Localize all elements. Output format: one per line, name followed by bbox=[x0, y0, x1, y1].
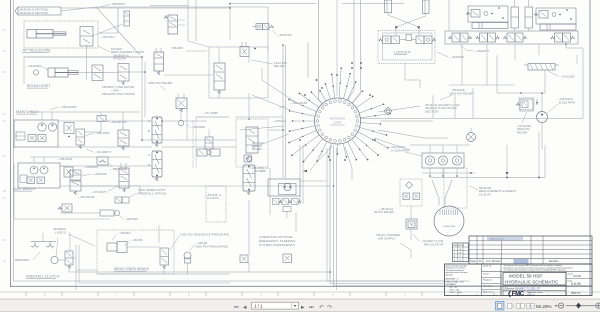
svg-text:—47UJ0I85: —47UJ0I85 bbox=[202, 111, 218, 115]
svg-text:56.29%: 56.29% bbox=[536, 304, 552, 309]
main winch counterbalance valve bbox=[64, 123, 74, 134]
aux winch motor 1 bbox=[30, 166, 38, 174]
svg-text:REGULATOR: REGULATOR bbox=[424, 242, 444, 246]
svg-text:Revision: Revision bbox=[549, 260, 559, 263]
svg-text:FRACTIONAL : 1/16: FRACTIONAL : 1/16 bbox=[446, 280, 465, 283]
center tall valve lower bbox=[243, 165, 255, 191]
svg-text:89C-71-201-27: 89C-71-201-27 bbox=[520, 287, 541, 291]
svg-text:—3UJ0182: —3UJ0182 bbox=[559, 75, 575, 79]
frame left inner border bbox=[13, 0, 15, 281]
big region rect top bbox=[96, 6, 268, 8]
pump lower box bbox=[283, 207, 291, 212]
ray continuation wires right bbox=[378, 106, 420, 112]
boom hoist holding valve bbox=[118, 64, 129, 82]
model title text bbox=[503, 273, 566, 286]
pump comb band bbox=[273, 199, 280, 205]
pilot valve 65J0795 bbox=[256, 24, 263, 30]
dashed region 47UJ0185 bbox=[196, 116, 229, 118]
zoom dropdown arrow bbox=[555, 305, 558, 307]
paper bottom edge bbox=[0, 291, 600, 293]
rotating joint radial lines bbox=[329, 143, 332, 157]
svg-text:⏭: ⏭ bbox=[309, 305, 314, 311]
svg-text:—46U0I06: —46U0I06 bbox=[124, 217, 138, 221]
vertical cylinder pair bbox=[511, 7, 519, 28]
svg-text:—52U00796: —52U00796 bbox=[109, 120, 127, 124]
lockout pilot center bbox=[406, 35, 412, 41]
part flag 58U0192 bbox=[15, 7, 18, 15]
aux winch motor 2 bbox=[40, 166, 48, 174]
svg-text:CRANKCASE: CRANKCASE bbox=[443, 225, 456, 228]
lockout valve left bbox=[383, 36, 392, 44]
right wires horiz bbox=[360, 118, 536, 120]
svg-text:58U0195 (3 SECTION): 58U0195 (3 SECTION) bbox=[20, 11, 49, 15]
page-mode icon 3 bbox=[517, 303, 520, 308]
zoom slider track bbox=[566, 305, 596, 307]
svg-text:A: A bbox=[4, 259, 6, 263]
svg-text:9-6-90: 9-6-90 bbox=[571, 282, 581, 286]
freefall leader wires bbox=[56, 238, 58, 256]
top right row wires bbox=[461, 44, 463, 85]
svg-text:DECIMALS:: DECIMALS: bbox=[446, 283, 457, 286]
relief valve spool bbox=[214, 63, 225, 90]
swing motor circle 1 bbox=[425, 156, 434, 165]
tip telescope cylinder bbox=[27, 30, 53, 39]
wire flag to bank bbox=[61, 7, 96, 11]
svg-text:—94J0095: —94J0095 bbox=[190, 125, 205, 129]
svg-text:C.O. Number: C.O. Number bbox=[486, 260, 501, 263]
revisions table highlight cell bbox=[487, 237, 523, 241]
outrigger cylinder left bbox=[385, 0, 392, 13]
strainer funnel bbox=[432, 180, 439, 205]
wire telescope to right bbox=[98, 8, 118, 33]
svg-text:ANGULAR : 1°: ANGULAR : 1° bbox=[446, 278, 459, 281]
revision mini-table bbox=[453, 243, 469, 262]
aux wires bbox=[17, 164, 19, 188]
feed valve top left bbox=[168, 15, 178, 34]
main winch motor 1 bbox=[38, 123, 46, 131]
revisions table column lines bbox=[476, 236, 478, 264]
svg-text:—46J05A: —46J05A bbox=[117, 231, 132, 235]
svg-text:Division: Division bbox=[527, 294, 535, 296]
leader cams bbox=[98, 46, 110, 52]
resistor box 58D0016a bbox=[97, 157, 108, 165]
joint funnel wires bbox=[319, 99, 325, 106]
svg-text:—57UJ075: —57UJ075 bbox=[91, 190, 107, 194]
upper center valve 58UJ006 bbox=[240, 47, 249, 57]
clutch lever bbox=[100, 210, 114, 216]
ray continuation wires down bbox=[310, 148, 330, 170]
right pilot valve block bbox=[520, 99, 533, 110]
zoom slider knob bbox=[576, 303, 581, 309]
tip telescope dashed box bbox=[24, 21, 98, 48]
aux control valve stack bbox=[70, 170, 81, 180]
boom hoist check valve bbox=[33, 70, 38, 75]
svg-text:—46J4I6: —46J4I6 bbox=[130, 238, 143, 242]
revisions table header row bbox=[469, 258, 592, 260]
svg-text:JOINT: JOINT bbox=[333, 121, 342, 125]
two speed selector bbox=[115, 197, 122, 203]
wire corridor top bbox=[187, 0, 189, 41]
relief valve 2193 psi block bbox=[209, 47, 268, 98]
relief diamond right bbox=[384, 107, 392, 115]
svg-text:—47K012: —47K012 bbox=[272, 119, 286, 123]
center small valve below bbox=[244, 155, 252, 162]
park brake wires bbox=[127, 246, 160, 248]
title block revisions table outer bbox=[469, 236, 592, 264]
svg-text:Approved: Approved bbox=[483, 291, 493, 294]
center long verticals bbox=[330, 145, 444, 284]
svg-text:AIR SUPPLY: AIR SUPPLY bbox=[378, 236, 396, 240]
svg-text:58D000I6s: 58D000I6s bbox=[15, 258, 30, 262]
svg-text:.XXXX : .0005: .XXXX : .0005 bbox=[449, 292, 462, 294]
used-on cell bbox=[482, 271, 593, 273]
aux winch counterbalance bbox=[64, 167, 73, 177]
air valve 1 bbox=[403, 193, 410, 200]
svg-text:RELIEF: RELIEF bbox=[274, 64, 285, 68]
svg-text:AC48: AC48 bbox=[573, 274, 581, 278]
freefall spring symbol 2 bbox=[46, 245, 54, 248]
boom hoist valve 2 bbox=[92, 65, 103, 81]
right pilot arrow bbox=[536, 99, 538, 105]
svg-text:—46J0105: —46J0105 bbox=[92, 172, 107, 176]
freefall spring symbol 1 bbox=[31, 245, 39, 248]
aux winch brake box 1 bbox=[27, 177, 35, 184]
air wires bbox=[410, 206, 412, 219]
freefall valve bbox=[65, 251, 73, 265]
bottom long bus bbox=[150, 271, 330, 273]
swing brake circle bbox=[434, 206, 464, 236]
main valve bank section B bbox=[152, 151, 162, 177]
frame bottom inner line bbox=[14, 280, 470, 282]
junction dots interconnect bbox=[141, 56, 143, 58]
lower x-box right bbox=[283, 254, 292, 263]
svg-text:SECTION: SECTION bbox=[425, 109, 438, 113]
svg-text:—55UJ017: —55UJ017 bbox=[100, 35, 116, 39]
svg-text:58-8-420-02: 58-8-420-02 bbox=[490, 237, 505, 241]
svg-text:BOOM HOIST: BOOM HOIST bbox=[27, 84, 51, 88]
svg-text:40 PSI RELIEF: 40 PSI RELIEF bbox=[374, 210, 395, 214]
frame left border bbox=[10, 0, 12, 287]
main winch wires bbox=[13, 121, 15, 148]
top right valve row bbox=[452, 33, 460, 42]
main winch control valve bbox=[118, 130, 129, 146]
toolbar top border bbox=[0, 298, 600, 300]
rotating joint port scallops bbox=[356, 120, 359, 123]
svg-text:SYSTEM COMPONENTS: SYSTEM COMPONENTS bbox=[259, 243, 295, 247]
fmc logo bbox=[503, 291, 566, 296]
center dashed box 46U0169 bbox=[236, 119, 268, 167]
svg-text:specified.: specified. bbox=[446, 274, 454, 276]
top right valve row frame bbox=[445, 31, 578, 44]
lockout dashed box bbox=[378, 31, 435, 64]
zoom out button bbox=[558, 303, 563, 308]
top right cylinder A bbox=[472, 23, 508, 29]
oil cooler bbox=[528, 64, 555, 71]
svg-text:—46J0165: —46J0165 bbox=[83, 165, 98, 169]
outrigger cylinder right bbox=[423, 0, 430, 14]
svg-text:❬FMC: ❬FMC bbox=[507, 290, 525, 297]
swing motor circle 2 bbox=[438, 156, 447, 165]
boom motor circle bbox=[467, 133, 476, 142]
zoom in button bbox=[596, 303, 600, 308]
swing dashed box bbox=[444, 168, 467, 208]
far right bus bend bbox=[566, 44, 583, 119]
aux winch housing bbox=[18, 163, 60, 188]
air filter dashed box bbox=[400, 179, 422, 206]
svg-text:—91J40073: —91J40073 bbox=[94, 150, 111, 154]
air valve 2 bbox=[413, 193, 420, 200]
park brake valve bbox=[160, 248, 169, 265]
revisions header blue cell bbox=[514, 259, 529, 263]
frame right border bbox=[589, 0, 591, 296]
frame bottom border bbox=[11, 285, 593, 287]
pilot valve small 47UJ bbox=[205, 137, 213, 149]
svg-text:1800 PSI RELIEF: 1800 PSI RELIEF bbox=[449, 91, 474, 95]
svg-text:—26A0077: —26A0077 bbox=[474, 49, 490, 53]
svg-text:1000 PSI PRECHARGE: 1000 PSI PRECHARGE bbox=[195, 245, 228, 249]
swing motor drop wires bbox=[429, 168, 431, 176]
svg-text:AUX. WINCH: AUX. WINCH bbox=[13, 187, 35, 191]
pump side wires bbox=[269, 168, 271, 215]
svg-text:2500 PSI RELIEF: 2500 PSI RELIEF bbox=[148, 81, 173, 85]
filter diamond above bbox=[246, 156, 252, 162]
right motor circle bbox=[537, 112, 548, 123]
aux winch left gear bbox=[20, 175, 27, 183]
svg-text:B: B bbox=[4, 189, 6, 193]
svg-text:A: A bbox=[148, 153, 150, 157]
svg-text:—58D000I6a: —58D000I6a bbox=[110, 167, 127, 171]
svg-text:—58UJ069: —58UJ069 bbox=[94, 131, 110, 135]
main winch brake box 2 bbox=[38, 135, 46, 142]
ray continuation wires left bbox=[262, 68, 297, 103]
svg-text:↷: ↷ bbox=[327, 304, 332, 311]
svg-text:LOCKOUT: LOCKOUT bbox=[394, 51, 412, 55]
svg-text:—58U01015: —58U01015 bbox=[59, 105, 77, 109]
svg-text:Checked: Checked bbox=[483, 286, 492, 288]
svg-text:WINCH PARK BRAKE: WINCH PARK BRAKE bbox=[114, 267, 150, 271]
pager page input box bbox=[252, 302, 299, 309]
svg-text:1200 PSI SEQUENCE PRESSURE: 1200 PSI SEQUENCE PRESSURE bbox=[180, 233, 229, 237]
lockout wires bbox=[395, 32, 397, 36]
orifice 52U0079 bbox=[97, 116, 106, 122]
pump group box bbox=[268, 179, 300, 196]
svg-text:58U000: 58U000 bbox=[172, 46, 183, 50]
park brake dashed box bbox=[97, 230, 174, 274]
aux winch brake box 2 bbox=[37, 177, 45, 184]
zone tick marks left bbox=[2, 29, 6, 31]
main winch housing bbox=[14, 120, 58, 147]
svg-text:B.025 RPM: B.025 RPM bbox=[559, 100, 575, 104]
lockout inner frame bbox=[383, 33, 433, 60]
svg-text:FREEFALL OPTION: FREEFALL OPTION bbox=[138, 192, 166, 196]
swing motor frame bbox=[422, 153, 464, 168]
freefall spring bar bbox=[31, 241, 56, 243]
wire boom hoist bbox=[24, 56, 140, 58]
main winch motor 2 bbox=[48, 123, 56, 131]
svg-text:—65J0795: —65J0795 bbox=[277, 33, 292, 37]
feed valve left 2 bbox=[154, 52, 164, 71]
tip telescope holding valve bbox=[80, 27, 93, 47]
lockout valve right bbox=[416, 36, 424, 44]
svg-text:↶: ↶ bbox=[319, 304, 324, 311]
extra center verticals bbox=[327, 148, 444, 281]
svg-text:Date: Date bbox=[471, 260, 477, 263]
svg-text:FREEFALL CLUTCH: FREEFALL CLUTCH bbox=[26, 275, 60, 279]
svg-text:—58U0101: —58U0101 bbox=[57, 157, 73, 161]
steering dashed boxes bbox=[206, 186, 226, 222]
svg-text:⏮: ⏮ bbox=[234, 305, 239, 311]
page-mode icon 2 bbox=[508, 303, 512, 308]
boom hoist cylinder bbox=[48, 68, 68, 77]
park brake actuator bbox=[107, 243, 117, 251]
wires center-left bbox=[218, 47, 220, 57]
swing motor circle 3 bbox=[452, 156, 461, 165]
top right pilot block A bbox=[468, 6, 508, 22]
aux left valve lower bbox=[62, 204, 72, 212]
svg-text:HYDRAULIC SCHEMATIC: HYDRAULIC SCHEMATIC bbox=[505, 280, 559, 285]
svg-text:58U0005: 58U0005 bbox=[112, 2, 125, 6]
scale cell bbox=[565, 272, 567, 296]
svg-text:Effective S/N:: Effective S/N: bbox=[505, 287, 521, 291]
lower small component bbox=[240, 255, 248, 263]
accumulator bbox=[184, 252, 191, 259]
pump inner rect bbox=[279, 184, 297, 195]
svg-text:MODEL 58 HSP: MODEL 58 HSP bbox=[509, 274, 542, 279]
main valve bank section A bbox=[152, 117, 162, 143]
svg-text:B: B bbox=[148, 129, 150, 133]
svg-text:Engineer: Engineer bbox=[483, 279, 492, 282]
rotating joint outer circle bbox=[315, 98, 361, 144]
page-mode icon selected bbox=[496, 302, 504, 310]
crossover X wires bbox=[388, 13, 419, 32]
svg-text:—91J0026: —91J0026 bbox=[26, 64, 41, 68]
right vertical bus bbox=[448, 0, 450, 31]
svg-text:51U0197: 51U0197 bbox=[479, 192, 492, 196]
toolbar bottom edge bbox=[0, 311, 600, 312]
revisions table row lines bbox=[469, 240, 592, 242]
swing bus above bbox=[410, 144, 470, 146]
page-mode icon 4 bbox=[527, 303, 530, 308]
two speed valve tall bbox=[119, 168, 129, 188]
svg-text:TIP TELESCOPE: TIP TELESCOPE bbox=[22, 49, 51, 53]
orifice pair 52U0079 bbox=[197, 149, 207, 156]
long bus wires interconnect bbox=[62, 7, 231, 9]
svg-text:Used On: Used On bbox=[483, 266, 492, 268]
main winch brake valve bbox=[76, 129, 85, 145]
svg-text:LIOEYS: LIOEYS bbox=[55, 231, 66, 235]
swing bus wires right bbox=[422, 172, 475, 174]
svg-text:—53J06BI: —53J06BI bbox=[252, 169, 266, 173]
main winch brake box 1 bbox=[28, 135, 36, 142]
freefall cylinder circle bbox=[51, 256, 58, 263]
svg-text:58U0455 (TWO DRUM): 58U0455 (TWO DRUM) bbox=[102, 92, 135, 96]
top right pilot block B bbox=[536, 8, 576, 24]
svg-text:1 / 1: 1 / 1 bbox=[254, 304, 263, 309]
valve stack 174 region bbox=[176, 98, 187, 109]
svg-text:—46UJ0106: —46UJ0106 bbox=[77, 195, 94, 199]
drawing number cell bbox=[565, 291, 567, 296]
air filter diamond bbox=[406, 182, 413, 189]
top right cylinder B bbox=[540, 24, 576, 30]
svg-text:B: B bbox=[148, 163, 150, 167]
toolbar background bbox=[0, 299, 600, 312]
svg-text:0964770: 0964770 bbox=[571, 292, 581, 295]
top right small valve 55UJ017 bbox=[124, 11, 130, 26]
svg-text:RELIEF: RELIEF bbox=[517, 130, 528, 134]
center valve 46U0169 bbox=[246, 127, 258, 153]
svg-text:& 51J474: & 51J474 bbox=[207, 196, 219, 200]
freefall wires bbox=[58, 259, 65, 261]
pump circle bbox=[284, 183, 291, 190]
air regulator valve bbox=[406, 219, 417, 229]
svg-text:—44UJ0155: —44UJ0155 bbox=[290, 101, 307, 105]
joint junction dots bbox=[351, 62, 353, 64]
effective serial number row blue bbox=[503, 286, 566, 291]
zone tick marks bottom bbox=[25, 292, 27, 296]
main winch left gear bbox=[16, 132, 25, 140]
tolerance notes cell bbox=[481, 264, 483, 296]
svg-text:Drawn: Drawn bbox=[483, 273, 490, 276]
title block main outer bbox=[445, 264, 593, 296]
